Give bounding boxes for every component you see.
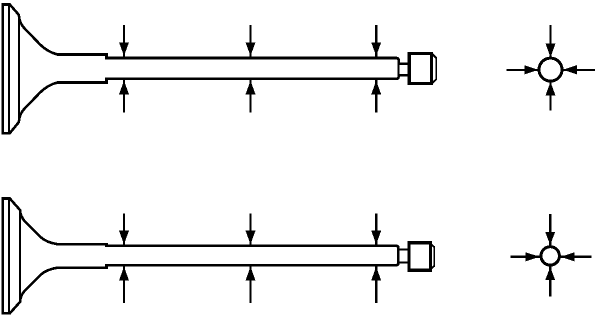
exhaust valve keeper groove bbox=[398, 250, 409, 263]
measurement arrow top at x=124 (intake) bbox=[119, 25, 129, 57]
intake valve tip block bbox=[409, 54, 431, 84]
cross-section arrow right (intake) bbox=[563, 65, 596, 74]
measurement arrow top at x=250.5 (intake) bbox=[246, 25, 256, 57]
cross-section arrow bottom (exhaust) bbox=[545, 266, 555, 297]
measurement arrow top at x=124 (exhaust) bbox=[119, 213, 129, 245]
exhaust valve head margin line bbox=[19, 210, 21, 302]
exhaust valve combustion-face inner line bbox=[8, 199, 10, 313]
exhaust valve tip chamfer profile bbox=[431, 244, 435, 270]
cross-section arrow left (exhaust) bbox=[511, 252, 540, 261]
measurement arrow top at x=250.5 (exhaust) bbox=[246, 213, 256, 245]
cross-section arrow left (intake) bbox=[507, 65, 539, 74]
intake valve head margin line bbox=[18, 15, 20, 122]
measurement arrow bottom at x=376.2 (intake) bbox=[371, 79, 381, 112]
exhaust valve tip block bbox=[409, 243, 431, 270]
intake valve silhouette (head, fillet, neck, stem) bbox=[3, 5, 399, 134]
cross-section arrow bottom (intake) bbox=[546, 81, 556, 111]
exhaust valve silhouette (head, fillet, neck, stem) bbox=[3, 199, 399, 314]
measurement arrow bottom at x=376.2 (exhaust) bbox=[371, 266, 381, 304]
cross-section arrow top (exhaust) bbox=[545, 214, 555, 246]
measurement arrow bottom at x=124 (intake) bbox=[119, 79, 129, 112]
measurement arrow top at x=376.2 (intake) bbox=[371, 25, 381, 57]
intake valve keeper groove bbox=[399, 64, 410, 75]
intake valve combustion-face inner line bbox=[8, 5, 10, 133]
exhaust stem cross-section circle bbox=[541, 247, 559, 265]
intake valve tip chamfer profile bbox=[433, 54, 437, 83]
cross-section arrow top (intake) bbox=[546, 25, 556, 59]
measurement arrow bottom at x=124 (exhaust) bbox=[119, 266, 129, 304]
measurement arrow bottom at x=250.5 (exhaust) bbox=[246, 266, 256, 304]
intake stem cross-section circle bbox=[539, 58, 562, 81]
cross-section arrow right (exhaust) bbox=[561, 252, 592, 261]
measurement arrow bottom at x=250.5 (intake) bbox=[246, 79, 256, 112]
measurement arrow top at x=376.2 (exhaust) bbox=[371, 213, 381, 245]
